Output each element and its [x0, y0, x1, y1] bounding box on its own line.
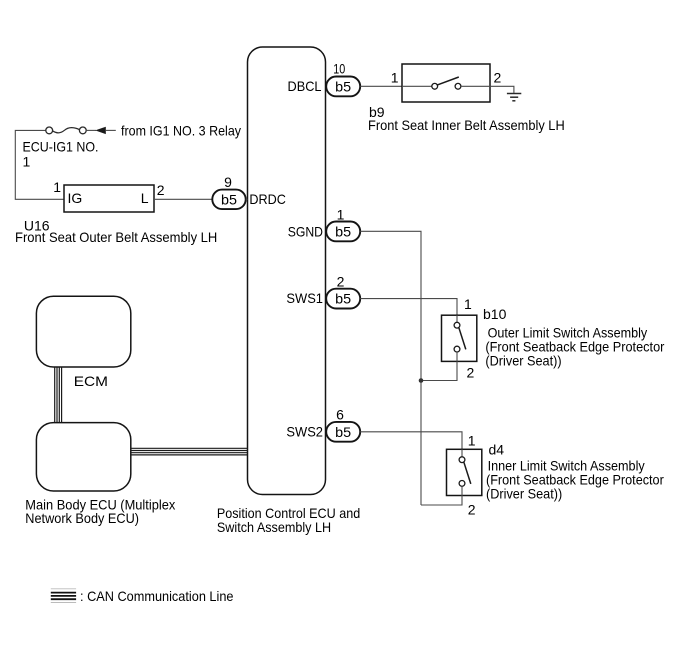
svg-text:SWS2: SWS2 [286, 423, 323, 439]
svg-text:1: 1 [464, 296, 472, 312]
connector b5 pin 6 (SWS2) [326, 422, 360, 442]
svg-text:(Driver Seat)): (Driver Seat)) [486, 485, 562, 501]
connector U16 box (buckle switch) [64, 185, 154, 212]
svg-text:b5: b5 [335, 223, 351, 239]
svg-text:d4: d4 [489, 441, 505, 457]
svg-text:6: 6 [336, 407, 344, 423]
label d4 Inner Limit Switch Assembly [486, 441, 664, 501]
svg-text:SWS1: SWS1 [286, 290, 323, 306]
connector b5 pin 2 (SWS1) [326, 289, 360, 309]
label b9 Front Seat Inner Belt Assembly LH [368, 104, 565, 133]
wire SWS1 to b10 switch [360, 299, 457, 316]
wire b5 to ECU box [246, 198, 248, 200]
label fuse ECU-IG1 NO. 1 [23, 138, 99, 169]
wire CAN bus vertical (ECM to Main Body ECU) [55, 367, 62, 423]
svg-text:9: 9 [224, 174, 232, 190]
svg-text:2: 2 [157, 182, 165, 198]
svg-text:Front Seat Outer Belt Assembly: Front Seat Outer Belt Assembly LH [15, 229, 217, 245]
svg-text:2: 2 [467, 365, 475, 381]
svg-text:1: 1 [391, 70, 399, 86]
svg-text:1: 1 [53, 179, 61, 195]
svg-text:DRDC: DRDC [249, 191, 286, 207]
wire from fuse to U16 (left L-shaped) [15, 130, 64, 199]
svg-text:(Driver Seat)): (Driver Seat)) [485, 353, 561, 369]
svg-text:Switch Assembly LH: Switch Assembly LH [217, 519, 331, 535]
ground [507, 94, 521, 101]
svg-text:b5: b5 [335, 79, 351, 95]
wire d4 pin 2 to SGND bus [421, 496, 462, 506]
svg-text:DBCL: DBCL [288, 78, 322, 94]
connector b5 pin 10 (DBCL) [326, 77, 360, 97]
label b10 Outer Limit Switch Assembly [483, 306, 665, 368]
svg-text:IG: IG [68, 190, 83, 206]
svg-text:b5: b5 [335, 291, 351, 307]
svg-text:1: 1 [23, 153, 31, 169]
label Main Body ECU (Multiplex Network Body ECU) [25, 497, 175, 526]
ECU U1 Position Control ECU and Switch Assembly LH (main box) [248, 47, 326, 495]
switch b9 (belt buckle switch) [402, 64, 490, 102]
svg-text:b5: b5 [335, 424, 351, 440]
svg-text:10: 10 [333, 61, 345, 77]
ECU ECM box [36, 296, 130, 367]
wire b10 pin 2 to SGND bus [421, 361, 457, 380]
svg-text:ECU-IG1 NO.: ECU-IG1 NO. [23, 138, 99, 154]
svg-text:SGND: SGND [288, 224, 323, 240]
arrow from IG1 NO. 3 Relay [95, 122, 241, 138]
svg-text:1: 1 [468, 433, 476, 449]
connector b5 pin 9 (DRDC) [212, 190, 245, 210]
wire DBCL to b9 switch [360, 85, 402, 87]
svg-text:Front Seat Inner Belt Assembly: Front Seat Inner Belt Assembly LH [368, 117, 565, 133]
wire U16 to connector b5 pin 9 [154, 198, 212, 200]
switch b10 (outer limit switch) [442, 315, 477, 361]
wire SGND bus (right then down) [360, 231, 421, 505]
svg-text:ECM: ECM [74, 373, 108, 389]
wire b9 to ground [490, 86, 514, 93]
svg-text:from IG1 NO. 3 Relay: from IG1 NO. 3 Relay [121, 122, 241, 138]
svg-text:b5: b5 [221, 191, 237, 207]
svg-text:2: 2 [337, 274, 345, 290]
fuse ECU-IG1 NO. 1 [46, 127, 86, 134]
wire CAN bus horizontal (Main Body ECU to Position Control ECU) [131, 448, 248, 455]
svg-text:L: L [141, 190, 149, 206]
svg-text:2: 2 [494, 70, 502, 86]
svg-text:: CAN Communication Line: : CAN Communication Line [80, 588, 234, 604]
wire fuse to arrow [86, 129, 96, 131]
svg-text:1: 1 [337, 206, 345, 222]
wire SWS2 to d4 switch [360, 432, 462, 450]
connector b5 pin 1 (SGND) [326, 222, 360, 242]
ECU Main Body ECU box [36, 423, 130, 491]
junction node on SGND bus [419, 378, 424, 383]
label Position Control ECU and Switch Assembly LH [217, 505, 360, 535]
label U16 Front Seat Outer Belt Assembly LH [15, 217, 217, 245]
svg-text:Network Body ECU): Network Body ECU) [25, 510, 139, 526]
switch d4 (inner limit switch) [447, 449, 482, 495]
svg-text:b10: b10 [483, 306, 507, 322]
legend CAN communication line symbol [51, 589, 76, 603]
svg-text:2: 2 [468, 501, 476, 517]
